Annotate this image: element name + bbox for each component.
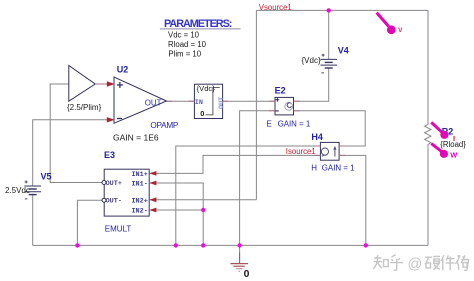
svg-text:IN2-: IN2- — [131, 207, 147, 215]
CCVS H4 — [314, 142, 345, 160]
wire V5 plus up and right to U2 inverting input — [33, 120, 108, 186]
svg-text:E3: E3 — [104, 150, 115, 160]
E3 pin arrow IN1+ — [149, 171, 156, 176]
svg-text:V4: V4 — [338, 45, 349, 55]
svg-text:E: E — [267, 119, 272, 128]
svg-text:EMULT: EMULT — [105, 225, 132, 234]
svg-text:IN2+: IN2+ — [131, 198, 147, 206]
svg-text:GAIN = 1: GAIN = 1 — [322, 164, 355, 173]
wire E2 out- right and down to H4 right top pin — [294, 111, 366, 146]
svg-text:GAIN = 1: GAIN = 1 — [278, 119, 311, 128]
junction dot IN2- vertical — [201, 208, 205, 212]
svg-text:Vdc = 10: Vdc = 10 — [168, 31, 200, 40]
wire limiter output to E2 plus input — [223, 100, 275, 102]
E3 pin arrow IN1- — [149, 181, 156, 186]
wire H4 left bottom to E3 IN1+ — [150, 155, 320, 173]
svg-text:@: @ — [408, 257, 423, 273]
wire E3 IN2+ to Vsource1 vertical — [150, 199, 256, 201]
svg-text:OUT-: OUT- — [106, 198, 122, 206]
wire right vertical to R2 top — [427, 10, 429, 122]
op-amp U2 — [114, 77, 167, 123]
voltage probe marker V — [377, 13, 403, 35]
svg-text:OUT: OUT — [145, 99, 162, 108]
wire V4 top to top net — [328, 10, 330, 59]
svg-text:OPAMP: OPAMP — [150, 121, 179, 130]
svg-text:W: W — [450, 150, 457, 159]
svg-text:PARAMETERS:: PARAMETERS: — [164, 18, 232, 30]
svg-text:IN: IN — [195, 99, 203, 107]
op-amp U2 inverting input pin arrow — [107, 117, 115, 122]
wire E3 IN2- to junction — [150, 209, 203, 211]
svg-text:{Vdc}: {Vdc} — [302, 56, 321, 65]
current probe marker I — [431, 122, 455, 143]
parameters underline — [160, 28, 241, 30]
power probe marker W — [431, 144, 457, 160]
svg-text:OUT+: OUT+ — [106, 180, 122, 188]
svg-text:Rload = 10: Rload = 10 — [168, 40, 207, 49]
svg-text:I: I — [453, 134, 455, 143]
svg-text:E2: E2 — [275, 86, 286, 96]
wire Vsource1 vertical down to E3 IN2+ row — [255, 10, 257, 199]
watermark zhihu — [373, 255, 468, 273]
ground symbol 0 — [230, 253, 248, 272]
wire U2 output to limiter input — [167, 100, 195, 102]
wire top horizontal net Vsource1 — [256, 9, 428, 11]
wire R2 bottom down to ground net — [427, 147, 429, 246]
svg-text:V5: V5 — [41, 172, 52, 182]
wire bottom ground net horizontal — [33, 244, 428, 246]
wire E3 IN1- right and down to ground net — [150, 183, 203, 245]
junction dot H4 ground — [364, 243, 368, 247]
wire H4 right bottom pin to ground net — [339, 155, 366, 245]
svg-text:GAIN = 1E6: GAIN = 1E6 — [113, 132, 159, 142]
VCVS E2 — [269, 97, 300, 115]
op-amp U2 non-inverting input pin arrow — [107, 81, 115, 86]
battery V5 — [24, 180, 41, 199]
junction dot IN1- ground — [201, 243, 205, 247]
junction dot V4 top — [327, 8, 331, 12]
E3 pin arrow IN2+ — [149, 197, 156, 202]
svg-text:Plim = 10: Plim = 10 — [168, 50, 201, 59]
svg-text:0: 0 — [244, 269, 250, 280]
svg-text:Vsource1: Vsource1 — [259, 3, 292, 12]
wire net Isource1 H4 left top to ground net — [176, 146, 321, 245]
gain block triangle {2.5/Plim} — [69, 66, 108, 102]
svg-text:V: V — [398, 27, 403, 34]
E3 pin arrow IN2- — [149, 208, 156, 213]
svg-text:IN1-: IN1- — [131, 181, 147, 189]
junction dot OUT- ground — [75, 243, 79, 247]
wire E2 minus input left and down to ground symbol — [240, 111, 275, 264]
svg-text:{Vdc}: {Vdc} — [197, 84, 216, 93]
svg-text:H4: H4 — [311, 132, 323, 142]
wire V4 bottom to E2 out+ — [294, 68, 329, 101]
multiplier E3 EMULT — [102, 169, 149, 216]
svg-text:Isource1: Isource1 — [286, 147, 316, 156]
svg-text:2.5Vdc: 2.5Vdc — [5, 186, 30, 195]
svg-text:U2: U2 — [117, 65, 129, 75]
junction dot Isource1 ground — [174, 243, 178, 247]
limiter block LIMIT — [189, 84, 229, 118]
wire E3 OUT- left and down to ground net — [77, 200, 104, 245]
battery V4 — [320, 54, 337, 73]
resistor R2 — [425, 123, 431, 147]
svg-text:0: 0 — [200, 109, 204, 118]
junction dot E2 minus ground — [237, 243, 241, 247]
wire V5 minus down to ground net — [32, 195, 34, 246]
svg-text:H: H — [311, 164, 317, 173]
wire E3 OUT+ left and up to gain block input — [50, 84, 104, 183]
svg-text:IN1+: IN1+ — [131, 171, 147, 179]
svg-text:{2.5/Plim}: {2.5/Plim} — [67, 103, 102, 112]
svg-text:OUT: OUT — [218, 97, 226, 109]
